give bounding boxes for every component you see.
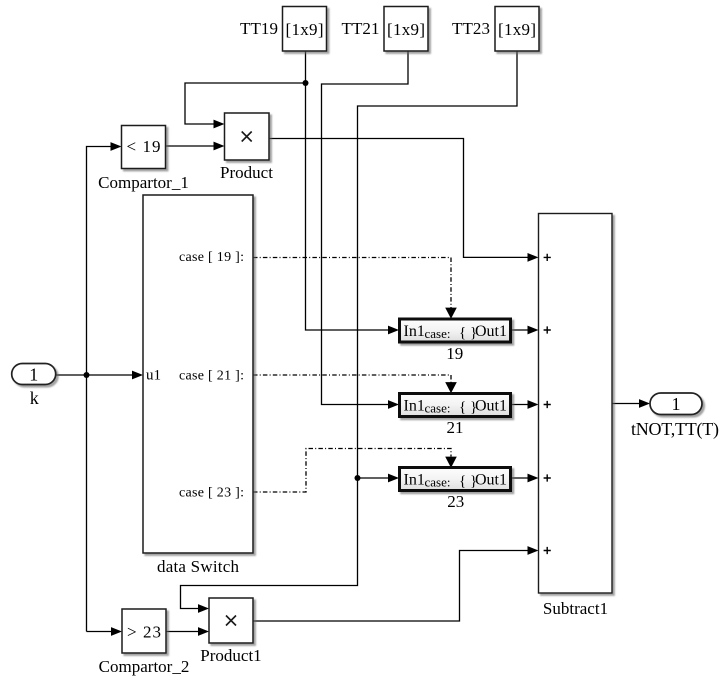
wire TT21 output to In1_21 [322,51,409,405]
product block Product [220,113,273,182]
svg-text:Product: Product [220,163,273,182]
svg-text:Compartor_1: Compartor_1 [98,173,189,192]
wire k to data Switch u1 [56,374,132,376]
svg-text:Product1: Product1 [200,646,261,665]
sum block Subtract1 [539,214,613,619]
svg-text:Out1: Out1 [475,472,507,489]
subsystem block case 23 (In1/Out1) [400,468,511,512]
comparator block Compartor_1 [98,126,189,193]
svg-text:[1x9]: [1x9] [498,20,536,39]
dash-dot wire case[21] to In1_21 action port [253,375,451,383]
svg-text:case:: case: [425,326,451,341]
svg-text:case [ 21 ]:: case [ 21 ]: [179,369,244,384]
svg-text:Out1: Out1 [475,398,507,415]
svg-text:TT23: TT23 [452,19,490,38]
svg-text:[1x9]: [1x9] [387,20,425,39]
wire In1_21 out to Subtract1 in3 [511,404,528,406]
svg-text:Subtract1: Subtract1 [543,599,608,618]
dash-dot wire case[19] to In1_19 action port [253,258,451,309]
svg-text:Compartor_2: Compartor_2 [99,657,190,676]
svg-text:u1: u1 [146,368,161,384]
wire Product1 out to Subtract1 in5 [253,551,528,622]
svg-text:23: 23 [447,492,464,511]
svg-text:21: 21 [447,418,464,437]
wire Product out to Subtract1 in1 [269,139,528,258]
dash-dot wire case[23] to In1_23 action port [253,449,451,493]
output port tNOT,TT(T) (1) [631,393,719,440]
svg-text:In1: In1 [404,472,425,489]
constant block TT19 [1x9] [240,7,327,52]
wire TT19 output down and branch to Product in1, to In1_19 [185,51,388,330]
svg-text:1: 1 [672,394,681,414]
svg-text:Out1: Out1 [475,323,507,340]
svg-text:data Switch: data Switch [157,557,240,576]
svg-text:case [ 23 ]:: case [ 23 ]: [179,486,244,501]
svg-text:case [ 19 ]:: case [ 19 ]: [179,250,244,265]
svg-text:> 23: > 23 [127,623,161,642]
wire Subtract1 out to output port [612,403,639,405]
wire Compartor_1 out to Product in2 [166,145,215,147]
wire k branch to Compartor_1 and Compartor_2 [87,147,112,632]
product block Product1 [200,598,261,665]
svg-text:In1: In1 [404,398,425,415]
comparator block Compartor_2 [99,609,190,676]
wire Compartor_2 out to Product1 in2 [166,631,198,633]
wire In1_19 out to Subtract1 in2 [511,329,528,331]
subsystem block case 21 (In1/Out1) [400,394,511,438]
junction dot on TT19 wire [303,80,309,86]
constant block TT23 [1x9] [452,7,539,52]
wire In1_23 out to Subtract1 in4 [511,477,528,479]
svg-text:k: k [30,388,39,408]
wire branch TT23 to In1_23 [358,477,389,479]
svg-text:In1: In1 [404,323,425,340]
constant block TT21 [1x9] [342,7,429,52]
svg-text:19: 19 [446,344,463,363]
input port k (1) [12,364,56,409]
svg-text:TT19: TT19 [240,19,278,38]
svg-text:case:: case: [425,401,451,416]
data Switch block [143,195,253,576]
svg-text:< 19: < 19 [127,137,161,156]
svg-text:TT21: TT21 [342,19,380,38]
junction dot on k wire [84,372,90,378]
svg-text:[1x9]: [1x9] [286,20,324,39]
wire TT23 output down, to Product1 in1 [181,51,518,609]
subsystem block case 19 (In1/Out1) [400,319,511,363]
svg-text:case:: case: [425,475,451,490]
junction dot on TT23 wire [355,475,361,481]
svg-text:1: 1 [29,365,38,385]
svg-text:tNOT,TT(T): tNOT,TT(T) [631,419,719,440]
